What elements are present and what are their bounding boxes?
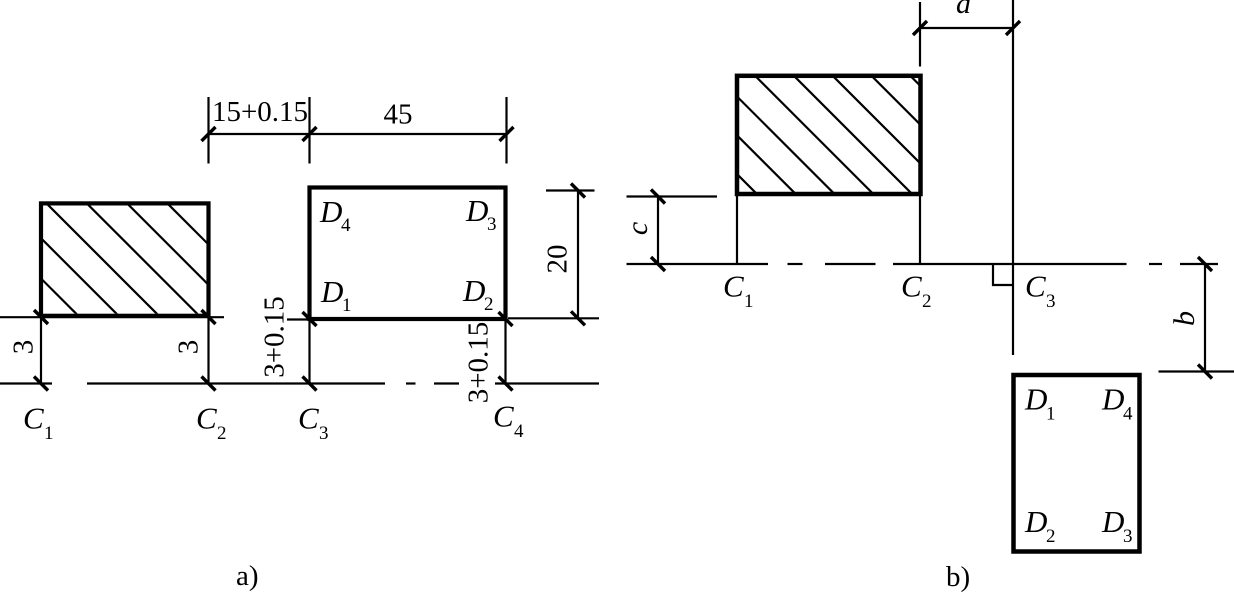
- extension line 20 top: [546, 189, 595, 191]
- dim text c: [621, 222, 654, 235]
- svg-text:1: 1: [342, 295, 352, 316]
- extension line b bottom: [1159, 370, 1234, 372]
- dimension line d: [920, 27, 1013, 29]
- svg-text:3: 3: [487, 214, 497, 235]
- tick at (658,264): [651, 257, 665, 271]
- tick at (309.5,134): [303, 127, 317, 141]
- svg-text:1: 1: [744, 291, 754, 312]
- svg-text:C: C: [493, 399, 514, 434]
- svg-text:3+0.15: 3+0.15: [259, 296, 291, 378]
- svg-text:D: D: [1101, 504, 1124, 539]
- hatched rectangle a: [0, 185, 339, 335]
- dimension line c: [657, 197, 659, 265]
- centerline b (dash-dot): [627, 263, 1219, 265]
- tick at (505.5,383.5): [499, 377, 513, 391]
- dimension line 3 at C2: [207, 317, 209, 384]
- svg-text:2: 2: [1046, 526, 1056, 547]
- ground line under hatched rect a: [0, 316, 224, 318]
- dim text b: [1168, 311, 1201, 326]
- svg-text:C: C: [723, 269, 744, 304]
- tick at (505.5,319): [499, 312, 513, 326]
- stub line left of D1 corner: [287, 318, 310, 320]
- svg-text:4: 4: [514, 421, 524, 442]
- svg-text:C: C: [1025, 269, 1046, 304]
- svg-text:b): b): [946, 561, 970, 593]
- svg-text:15+0.15: 15+0.15: [212, 96, 308, 128]
- svg-text:C: C: [23, 401, 44, 436]
- tick at (1013,28): [1006, 21, 1020, 35]
- svg-text:2: 2: [922, 291, 932, 312]
- svg-text:3+0.15: 3+0.15: [463, 322, 495, 404]
- tick at (1205,371.5): [1198, 365, 1212, 379]
- tick at (1205,264): [1198, 257, 1212, 271]
- svg-text:45: 45: [384, 99, 413, 131]
- dimension line b: [1204, 264, 1206, 372]
- dimension line 15+0.15 / 45: [209, 133, 507, 135]
- svg-text:2: 2: [217, 423, 227, 444]
- extension line at C3 top (x=309.5): [308, 97, 310, 164]
- tick at (578,190.5): [571, 184, 585, 198]
- svg-text:4: 4: [341, 215, 351, 236]
- dimension line 3+0.15 at C4: [504, 321, 506, 384]
- svg-text:2: 2: [484, 294, 494, 315]
- tick at (658,196.5): [651, 190, 665, 204]
- dim text 20: [542, 245, 574, 274]
- tick at (41,317): [34, 310, 48, 324]
- long vertical line through C3 (b): [1012, 0, 1014, 355]
- svg-text:c: c: [621, 222, 654, 235]
- side line below hatched rect b right: [919, 194, 921, 264]
- extension line 20 bottom: [508, 317, 599, 319]
- svg-text:D: D: [1101, 382, 1124, 417]
- dim text 3+0.15 (left): [259, 296, 291, 378]
- dim text 3+0.15 (right): [463, 322, 495, 404]
- tick at (208.5,317): [202, 310, 216, 324]
- tick at (208.5,134): [202, 127, 216, 141]
- dimension line 20: [577, 191, 579, 319]
- tick at (208.5,383.5): [202, 377, 216, 391]
- svg-text:1: 1: [44, 423, 54, 444]
- svg-text:3: 3: [8, 340, 40, 355]
- svg-text:C: C: [901, 269, 922, 304]
- dimension line 3 at C1: [40, 317, 42, 384]
- tick at (578,318.3): [571, 311, 585, 325]
- svg-text:3: 3: [1123, 526, 1133, 547]
- svg-text:D: D: [465, 193, 488, 228]
- side line below hatched rect b left: [736, 194, 738, 264]
- svg-text:D: D: [1024, 504, 1047, 539]
- svg-text:C: C: [196, 401, 217, 436]
- rectangle D (part a): [310, 188, 506, 320]
- tick at (309.5,319): [303, 312, 317, 326]
- tick at (506.5,134): [500, 127, 514, 141]
- dim text 3 (left): [8, 340, 40, 355]
- svg-text:1: 1: [1046, 404, 1056, 425]
- svg-text:4: 4: [1123, 404, 1133, 425]
- rectangle D (part b): [1014, 375, 1140, 552]
- centerline a (dash-dot): [0, 382, 599, 384]
- svg-text:3: 3: [173, 340, 205, 355]
- svg-text:D: D: [319, 194, 342, 229]
- extension line at C2 top (x=208.5): [207, 97, 209, 164]
- tick at (920,28): [913, 21, 927, 35]
- dim text 3 (right): [173, 340, 205, 355]
- svg-text:3: 3: [319, 423, 329, 444]
- svg-text:3: 3: [1046, 291, 1056, 312]
- extension line c top: [627, 195, 718, 197]
- dimension line 3+0.15 at C3: [308, 319, 310, 384]
- svg-text:a): a): [236, 560, 259, 592]
- svg-text:C: C: [298, 401, 319, 436]
- svg-text:D: D: [1024, 382, 1047, 417]
- extension line d left (x=920): [919, 2, 921, 67]
- svg-text:D: D: [320, 274, 343, 309]
- svg-text:b: b: [1168, 311, 1201, 326]
- svg-text:D: D: [462, 273, 485, 308]
- svg-text:d: d: [956, 0, 972, 20]
- svg-text:20: 20: [542, 245, 574, 274]
- extension line at C4 top (x=506.5): [505, 97, 507, 164]
- tick at (309.5,383.5): [303, 377, 317, 391]
- tick at (41,383.5): [34, 377, 48, 391]
- right angle mark at C3 (b): [993, 264, 1013, 285]
- hatched rectangle b: [623, 60, 1045, 210]
